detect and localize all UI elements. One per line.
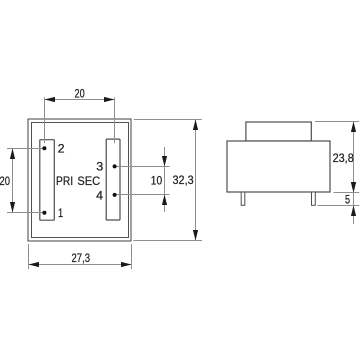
label SEC [77, 174, 100, 188]
dim 20 left: top arrow [10, 149, 15, 160]
dim 20 left: text [0, 174, 10, 188]
dim 32,3: extension lines [133, 120, 202, 241]
pin 3 label [96, 159, 103, 173]
dim 23,8: bottom arrow [351, 182, 356, 193]
secondary pin slot [106, 139, 120, 220]
dim 5: extension line at pin bottom [318, 205, 360, 207]
dim 32,3: text [173, 173, 195, 187]
dim 32,3: dimension line [195, 120, 197, 241]
dim 20 left: dimension line [12, 149, 14, 213]
dim 23,8: top arrow [351, 122, 356, 133]
svg-text:32,3: 32,3 [173, 173, 195, 187]
transformer top view: outer case outline [28, 119, 131, 241]
dim 10: text [151, 174, 163, 188]
dim 5: dimension line [353, 182, 355, 224]
dim 20 left: bottom arrow [10, 202, 15, 213]
pin 2 dot [42, 146, 46, 150]
svg-text:27,3: 27,3 [72, 251, 91, 265]
pin 4 dot [113, 193, 117, 197]
dim 20 top: extension lines [45, 97, 115, 143]
pin 1 dot [42, 211, 46, 215]
dim 27,3: left arrow [29, 262, 40, 267]
dim 32,3: bottom arrow [193, 230, 198, 241]
svg-text:PRI: PRI [56, 174, 73, 188]
pin 2 label [58, 142, 65, 156]
dim 23,8: extension lines [315, 122, 359, 193]
dim 27,3: extension lines [29, 244, 132, 269]
dim 10: lower arrow pointing up [162, 195, 167, 206]
primary pin slot [40, 140, 55, 221]
dim 32,3: top arrow [193, 120, 198, 131]
dim 10: upper arrow pointing down [162, 156, 167, 167]
svg-text:5: 5 [345, 192, 350, 206]
dim 20 top: dimension line [45, 99, 115, 101]
svg-text:20: 20 [0, 174, 10, 188]
pin 1 label [58, 206, 63, 220]
dim 27,3: text [72, 251, 91, 265]
dim 20 top: text [75, 86, 86, 100]
dim 20 top: right arrow [104, 97, 115, 102]
pin 4 label [96, 188, 103, 202]
dim 27,3: dimension line [29, 264, 132, 266]
svg-text:20: 20 [75, 86, 86, 100]
side view: right pin [312, 192, 316, 205]
dim 20 left: extension lines [7, 149, 44, 213]
dim 5: upper arrow pointing down [351, 182, 356, 193]
transformer top view: inner case outline [32, 123, 129, 238]
svg-text:3: 3 [96, 159, 103, 173]
svg-text:SEC: SEC [77, 174, 100, 188]
svg-text:23,8: 23,8 [333, 151, 355, 165]
dim 27,3: right arrow [121, 262, 132, 267]
dim 23,8: text [333, 151, 355, 165]
dim 20 top: left arrow [45, 97, 56, 102]
label PRI [56, 174, 73, 188]
dim 23,8: dimension line [353, 122, 355, 193]
dim 10: dimension line [164, 147, 166, 212]
side view: bobbin block [246, 122, 311, 141]
side view: case body [227, 141, 330, 192]
side view: left pin [241, 192, 245, 205]
pin 3 dot [113, 164, 117, 168]
dim 5: text [345, 192, 350, 206]
svg-text:10: 10 [151, 174, 163, 188]
svg-text:1: 1 [58, 206, 63, 220]
dim 10: extension lines from pins 3 and 4 [117, 167, 170, 195]
svg-text:4: 4 [96, 188, 103, 202]
dim 5: lower arrow pointing up [351, 206, 356, 217]
svg-text:2: 2 [58, 142, 65, 156]
